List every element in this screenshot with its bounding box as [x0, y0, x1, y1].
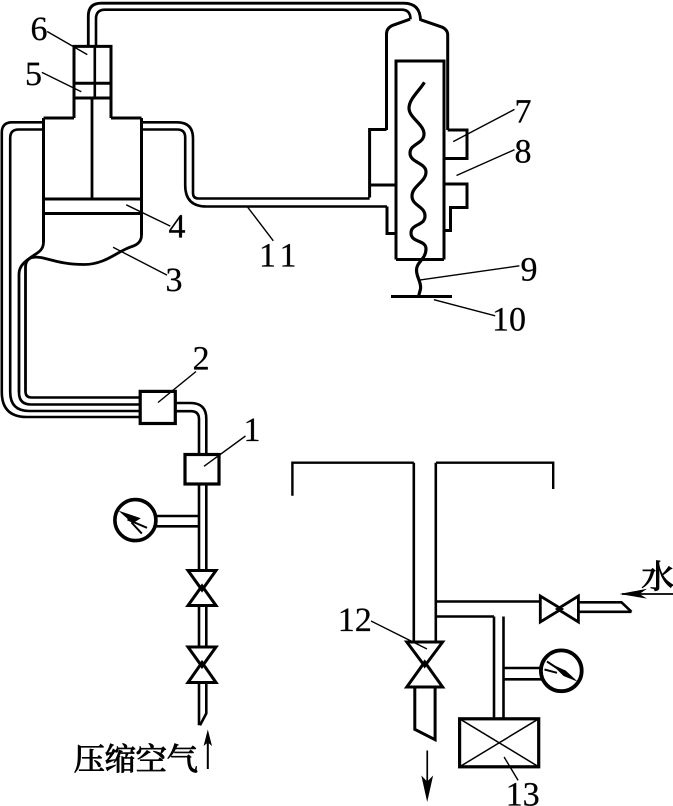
label 13 — [509, 783, 521, 805]
valve V2 lower triangle — [188, 663, 216, 683]
leader line for label 6 — [47, 32, 87, 55]
water inlet stub bottom line — [578, 610, 631, 613]
text label: compressed air 压缩空气 — [75, 743, 198, 772]
gauge needle — [118, 511, 147, 534]
water flow arrow — [622, 593, 673, 595]
wire pipe from box 2 to box 1 (bottom line) — [175, 411, 199, 454]
wire bend into regulator 2 line b — [19, 393, 140, 405]
wire gauge connector (top line) — [157, 515, 200, 518]
wire left pipe from vessel side (bottom line) — [10, 130, 43, 393]
leader line for label 10 — [434, 300, 495, 316]
leader line for label 4 — [126, 205, 170, 226]
atomizer body step left upper — [370, 130, 387, 198]
wire pipe 11 from vessel to atomizer (bottom line) — [142, 130, 388, 207]
label 1 — [246, 419, 258, 441]
collection hood right bracket — [436, 463, 553, 489]
wire water line to valve (top line) — [436, 600, 541, 603]
vessel 3 shoulder left — [44, 117, 75, 120]
wire top pipe from vessel 6 to atomizer 7 (inner line) — [96, 10, 411, 47]
valve V1 upper triangle — [188, 571, 216, 591]
vessel 3 bottom curve into drain inner line — [26, 235, 142, 392]
leader line for label 3 — [113, 247, 167, 275]
flowmeter box 13 diagonal b — [460, 719, 539, 767]
atomizer dome top right — [421, 20, 448, 130]
vessel section 5 divider lower line — [74, 97, 111, 100]
wire center drain pipe left line — [412, 463, 415, 642]
vessel 3 right wall — [140, 118, 143, 235]
regulator box 2 — [140, 391, 175, 423]
label 9 — [522, 258, 537, 281]
spray plate 10 — [391, 295, 452, 298]
wire center drain pipe right line — [434, 463, 437, 642]
vessel section 5 divider upper line — [74, 82, 111, 85]
compressed air inlet arrow — [204, 730, 212, 770]
label 4 — [169, 215, 185, 237]
tube inside cap 6 — [94, 46, 97, 98]
label 8 — [516, 140, 530, 163]
label 2 — [194, 347, 208, 370]
wire bend into regulator 2 line d — [2, 392, 140, 417]
label 10 — [495, 308, 507, 330]
wire gauge connector (bottom line) — [157, 525, 200, 528]
plate 4 lower line — [44, 212, 142, 215]
water valve left triangle — [540, 596, 561, 622]
drain valve 12 upper triangle — [407, 642, 443, 666]
water inlet stub top line — [578, 602, 631, 612]
vessel cap 6 outline — [74, 46, 111, 118]
wire bend into regulator 2 line c — [10, 392, 140, 411]
leader line for label 2 — [158, 372, 196, 403]
collection hood left bracket — [292, 463, 413, 496]
label 12 — [341, 609, 353, 631]
drain outflow arrow — [421, 751, 433, 803]
leader line for label 7 — [453, 109, 514, 141]
atomizer body left lower jog — [387, 207, 396, 234]
wire branch pipe down (right line) — [502, 617, 505, 719]
label 7 — [517, 100, 531, 122]
label 11 — [262, 244, 274, 266]
leader line for label 1 — [204, 436, 246, 466]
wire pipe 11 from vessel to atomizer (top line) — [142, 122, 370, 198]
plate 4 upper line — [44, 198, 142, 201]
wire gauge 2 connector top line — [504, 667, 542, 670]
vessel 3 left wall — [42, 118, 45, 242]
wire branch pipe down (left line) — [493, 617, 496, 719]
atomizer flange 7 right upper — [444, 130, 467, 159]
flowmeter box 13 — [460, 719, 539, 767]
wire top pipe from vessel 6 to atomizer 7 (outer line) — [88, 3, 420, 46]
valve V1 lower triangle — [188, 586, 216, 606]
label 5 — [27, 63, 41, 86]
center tube inside vessel 3 — [91, 98, 94, 199]
wire pipe from box 2 to box 1 (top line) — [175, 403, 206, 455]
leader line for label 12 — [371, 621, 427, 649]
valve V2 upper triangle — [188, 647, 216, 667]
leader line for label 13 — [504, 757, 518, 780]
gauge 2 needle — [545, 662, 578, 682]
flowmeter box 13 diagonal a — [460, 719, 539, 767]
wire air pipe below box 1 (left line) — [198, 484, 201, 725]
drain valve 12 lower triangle — [407, 662, 443, 687]
filter box 1 — [185, 455, 219, 485]
atomizer flange right lower — [444, 184, 467, 231]
atomizer dome top left — [387, 19, 411, 130]
water valve right triangle — [558, 596, 579, 622]
pressure gauge on air line — [115, 500, 156, 541]
atomizer inner tube 8 — [396, 61, 444, 260]
vessel 3 left wall curve into drain outer line — [19, 242, 44, 393]
leader line for label 5 — [42, 72, 81, 91]
label 3 — [167, 268, 181, 291]
text label: water 水 — [642, 561, 673, 591]
vessel 3 shoulder right — [111, 117, 142, 120]
leader line for label 11 — [247, 206, 273, 240]
wire gauge 2 connector bottom line — [504, 678, 542, 681]
wire air pipe below box 1 (right line) — [200, 484, 206, 725]
pressure gauge on water line — [541, 650, 582, 691]
leader line for label 9 — [418, 266, 520, 281]
drain spout below valve 12 — [415, 687, 435, 740]
label 6 — [32, 17, 47, 40]
wire left pipe from vessel side (top line) — [2, 122, 44, 392]
leader line for label 8 — [457, 150, 515, 176]
atomizer body step left inner — [370, 184, 396, 187]
wire lower water line to branch — [436, 615, 494, 618]
liquid thread 9 wavy line — [409, 82, 426, 296]
wire bend into regulator 2 line a — [26, 392, 141, 398]
atomizer bottom edge — [396, 258, 444, 261]
